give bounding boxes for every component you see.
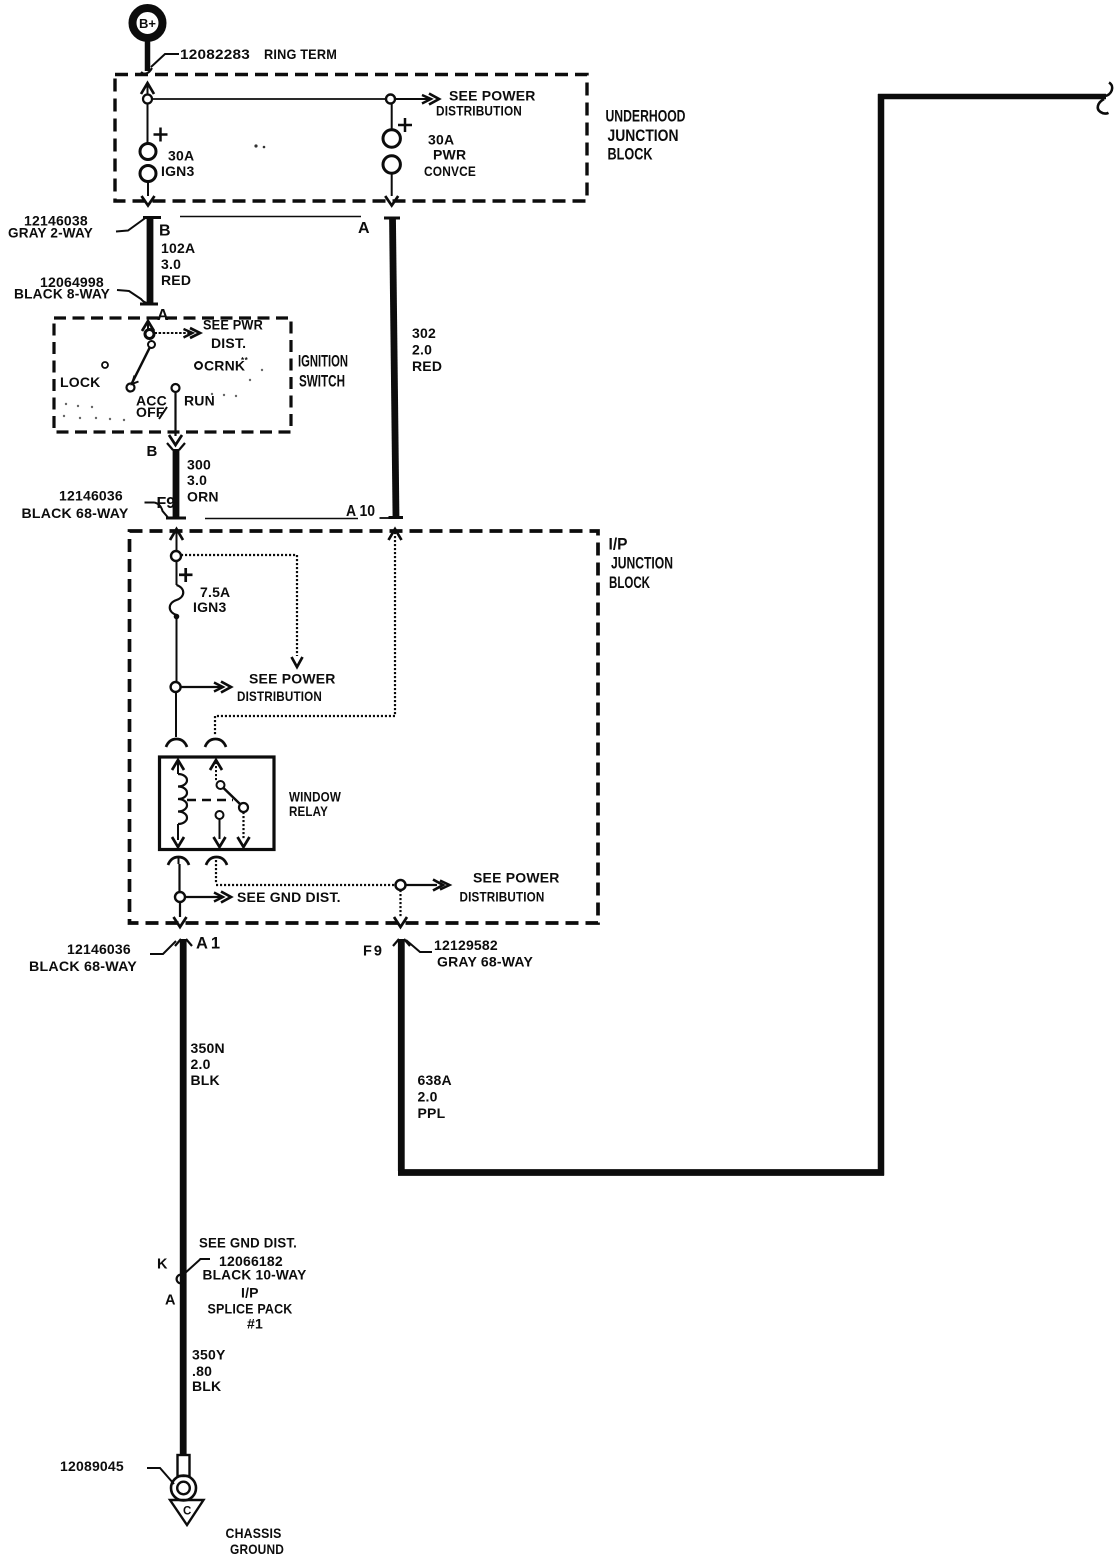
svg-text:DISTRIBUTION: DISTRIBUTION	[436, 103, 522, 119]
svg-text:CHASSIS: CHASSIS	[226, 1525, 282, 1541]
svg-text:BLACK 68-WAY: BLACK 68-WAY	[22, 505, 129, 521]
svg-text:#1: #1	[247, 1316, 263, 1332]
svg-text:ORN: ORN	[187, 489, 219, 505]
svg-text:SEE GND DIST.: SEE GND DIST.	[237, 889, 341, 905]
svg-text:7.5A: 7.5A	[200, 584, 230, 600]
svg-text:A1: A1	[196, 935, 223, 953]
svg-text:A: A	[358, 220, 370, 237]
svg-text:RING TERM: RING TERM	[264, 46, 337, 62]
svg-text:UNDERHOOD: UNDERHOOD	[606, 107, 686, 126]
svg-text:**: **	[241, 356, 249, 365]
svg-text:RUN: RUN	[184, 393, 215, 409]
svg-text:GRAY 68-WAY: GRAY 68-WAY	[437, 954, 533, 970]
svg-text:3.0: 3.0	[187, 472, 207, 488]
svg-text:300: 300	[187, 457, 211, 473]
svg-text:BLK: BLK	[192, 1378, 221, 1394]
svg-text:BLOCK: BLOCK	[608, 145, 654, 164]
svg-text:DIST.: DIST.	[211, 335, 246, 351]
svg-text:3.0: 3.0	[161, 256, 181, 272]
svg-text:LOCK: LOCK	[60, 374, 100, 390]
svg-text:F9: F9	[157, 495, 176, 512]
svg-text:OFF: OFF	[136, 404, 165, 420]
svg-text:638A: 638A	[418, 1072, 452, 1088]
svg-text:302: 302	[412, 325, 436, 341]
svg-text:2.0: 2.0	[412, 342, 432, 358]
svg-text:A: A	[165, 1293, 176, 1309]
svg-text:SEE POWER: SEE POWER	[473, 870, 560, 886]
svg-text:F9: F9	[363, 944, 384, 960]
svg-text:CRNK: CRNK	[204, 358, 245, 374]
svg-text:IGN3: IGN3	[193, 599, 226, 615]
svg-text:BLOCK: BLOCK	[609, 573, 650, 592]
svg-text:350Y: 350Y	[192, 1347, 226, 1363]
svg-text:C: C	[183, 1506, 191, 1518]
svg-text:2.0: 2.0	[418, 1089, 438, 1105]
svg-text:IGN3: IGN3	[161, 163, 194, 179]
svg-text:12129582: 12129582	[434, 937, 498, 953]
svg-text:SPLICE PACK: SPLICE PACK	[208, 1301, 293, 1317]
svg-text:B: B	[159, 223, 171, 240]
svg-text:DISTRIBUTION: DISTRIBUTION	[460, 889, 545, 905]
svg-text:102A: 102A	[161, 240, 195, 256]
svg-text:RED: RED	[412, 358, 442, 374]
svg-text:PWR: PWR	[433, 147, 466, 163]
svg-text:DISTRIBUTION: DISTRIBUTION	[237, 688, 322, 704]
svg-text:350N: 350N	[191, 1040, 225, 1056]
svg-text:JUNCTION: JUNCTION	[611, 554, 673, 573]
svg-text:IGNITION: IGNITION	[298, 352, 348, 371]
svg-text:SEE PWR: SEE PWR	[203, 317, 263, 333]
svg-text:BLACK 10-WAY: BLACK 10-WAY	[203, 1267, 307, 1283]
svg-text:B: B	[147, 443, 158, 460]
svg-text:12146036: 12146036	[67, 941, 131, 957]
svg-text:SEE GND DIST.: SEE GND DIST.	[199, 1235, 297, 1251]
svg-text:BLACK 68-WAY: BLACK 68-WAY	[29, 958, 137, 974]
svg-text:2.0: 2.0	[191, 1056, 211, 1072]
svg-text:SWITCH: SWITCH	[299, 372, 345, 391]
svg-text:RELAY: RELAY	[289, 803, 328, 819]
svg-text:GRAY 2-WAY: GRAY 2-WAY	[8, 225, 93, 241]
svg-text:30A: 30A	[168, 148, 194, 164]
svg-text:I/P: I/P	[241, 1285, 259, 1301]
svg-text:GROUND: GROUND	[230, 1541, 284, 1557]
svg-text:CONVCE: CONVCE	[424, 163, 476, 179]
svg-text:.80: .80	[192, 1363, 212, 1379]
svg-text:30A: 30A	[428, 132, 454, 148]
svg-text:A 10: A 10	[346, 503, 375, 520]
svg-text:SEE POWER: SEE POWER	[449, 88, 536, 104]
svg-text:BLACK 8-WAY: BLACK 8-WAY	[14, 286, 110, 302]
svg-text:K: K	[157, 1257, 168, 1273]
svg-text:I/P: I/P	[609, 535, 628, 554]
svg-text:12089045: 12089045	[60, 1458, 124, 1474]
svg-text:PPL: PPL	[418, 1105, 446, 1121]
svg-text:12146036: 12146036	[59, 488, 123, 504]
svg-text:SEE POWER: SEE POWER	[249, 671, 336, 687]
svg-text:12082283: 12082283	[180, 46, 250, 62]
svg-text:JUNCTION: JUNCTION	[608, 126, 679, 145]
svg-text:A: A	[157, 307, 169, 324]
svg-text:RED: RED	[161, 272, 191, 288]
svg-text:B+: B+	[139, 16, 156, 31]
svg-text:BLK: BLK	[191, 1072, 220, 1088]
